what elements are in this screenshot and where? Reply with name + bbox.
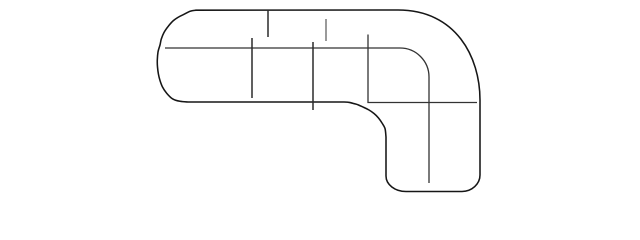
clip tick 3 — [251, 38, 253, 98]
channel line (inner groove) — [165, 48, 429, 183]
clip tick 4 — [312, 42, 314, 110]
clip tick 1 — [267, 10, 269, 37]
joint line (corner seam) — [368, 35, 477, 103]
weatherstrip outer outline — [157, 10, 480, 192]
clip tick 2 (gray) — [325, 19, 327, 41]
